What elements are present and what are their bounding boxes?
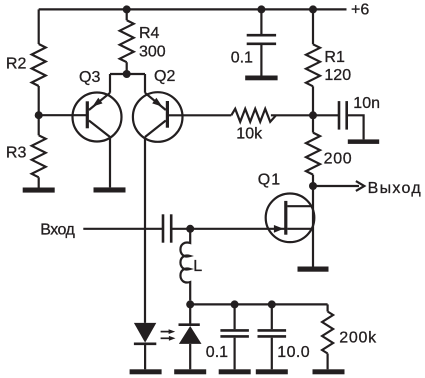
wire R3 to ground: [38, 177, 40, 187]
svg-text:0.1: 0.1: [231, 50, 253, 67]
wire Q2 collector down to LED: [144, 137, 146, 323]
wire Q1 drain/source vertical: [312, 186, 314, 267]
svg-text:200k: 200k: [339, 330, 377, 347]
transistor Q1 JFET: [266, 194, 315, 243]
wire 200k to ground: [327, 354, 329, 370]
wire 10.0 cap to ground: [271, 338, 273, 370]
svg-text:Q2: Q2: [154, 68, 175, 85]
svg-text:+6: +6: [351, 2, 369, 19]
resistor R2: [32, 44, 46, 86]
optocoupler light arrows: [161, 329, 176, 341]
wire R4 bottom lead: [126, 62, 128, 74]
wire 0.1 cap top lead: [260, 9, 262, 34]
node top rail / R4: [123, 5, 131, 13]
svg-text:Выход: Выход: [368, 180, 422, 197]
wire 10n to ground: [347, 115, 364, 139]
wire Q3 collector to ground: [109, 137, 111, 187]
wire 0.1 bottom cap top lead: [234, 304, 236, 329]
ground 10.0: [256, 369, 288, 374]
capacitor 0.1 bottom: [220, 329, 249, 332]
wire R1 top lead: [312, 9, 314, 44]
resistor R4: [120, 20, 134, 62]
wire Q2 emitter vertical: [144, 74, 146, 93]
arrow head output: [356, 181, 364, 191]
node 10k/R1/200/10n: [309, 111, 317, 119]
svg-text:Вход: Вход: [40, 222, 75, 239]
ground 0.1 top cap: [245, 76, 277, 81]
node bottom rail / 10.0: [268, 300, 276, 308]
transistor Q3: [73, 93, 122, 142]
wire Q3 base lead: [39, 114, 88, 116]
wire node to 200: [312, 115, 314, 132]
node top rail / 0.1 cap: [257, 5, 265, 13]
ground photodiode: [174, 369, 206, 374]
resistor 10k: [231, 109, 276, 122]
wire input lead: [83, 228, 163, 230]
svg-text:R3: R3: [6, 144, 27, 161]
wire left branch down from rail to R2: [38, 9, 40, 44]
node R2/R3 divider: [35, 111, 43, 119]
svg-text:L: L: [193, 258, 202, 275]
svg-text:10k: 10k: [236, 125, 263, 142]
wire 10k to node: [271, 114, 313, 116]
wire output arrow: [313, 185, 359, 187]
svg-text:10.0: 10.0: [277, 344, 310, 361]
wire 10.0 cap top lead: [271, 304, 273, 329]
ground 10n: [348, 139, 379, 144]
node output: [309, 182, 317, 190]
capacitor 0.1 top: [247, 34, 276, 37]
svg-text:300: 300: [139, 43, 166, 60]
wire R1 bottom lead: [312, 86, 314, 115]
wire 200 to output node: [312, 175, 314, 186]
ground 0.1 bottom: [219, 369, 251, 374]
capacitor 10.0: [258, 329, 287, 332]
transistor Q2: [133, 92, 183, 142]
ground LED: [130, 369, 162, 374]
wire Q3 emitter vertical: [109, 74, 111, 93]
wire R4 top lead: [126, 9, 128, 20]
node bottom rail / 0.1: [231, 300, 239, 308]
resistor R3: [32, 135, 46, 177]
wire input cap to node: [171, 228, 190, 230]
wire Q2 base to 10k: [167, 114, 231, 116]
LED: [134, 323, 156, 343]
photodiode: [179, 323, 200, 326]
ground Q1: [298, 267, 329, 272]
wire bottom rail: [190, 303, 327, 305]
wire bottom rail to 200k: [327, 304, 329, 311]
resistor 200k: [322, 312, 333, 354]
capacitor 10n: [338, 101, 341, 130]
svg-text:0.1: 0.1: [206, 344, 228, 361]
resistor 200: [306, 133, 320, 175]
wire top rail +6: [39, 8, 347, 10]
node L/photodiode/bottom rail: [186, 300, 194, 308]
wire R2 to R3: [38, 86, 40, 135]
inductor L: [180, 229, 190, 301]
wire 0.1 bottom cap to ground: [234, 338, 236, 370]
svg-text:Q3: Q3: [79, 69, 100, 86]
svg-text:200: 200: [324, 151, 353, 168]
ground Q3: [94, 187, 126, 192]
resistor R1: [306, 44, 320, 86]
ground 200k: [313, 369, 345, 374]
wire emitter rail: [110, 73, 145, 75]
ground R3: [23, 188, 55, 193]
svg-text:R4: R4: [139, 25, 160, 42]
wire node to Q1 gate: [190, 228, 286, 230]
node input/L/gate: [186, 225, 194, 233]
node emitter rail: [123, 70, 131, 78]
wire photodiode to ground: [189, 344, 191, 369]
wire node to 10n cap: [313, 114, 339, 116]
svg-text:Q1: Q1: [258, 171, 281, 188]
capacitor input coupling: [162, 214, 165, 242]
svg-text:120: 120: [324, 67, 351, 84]
svg-text:10n: 10n: [353, 95, 380, 112]
svg-text:R2: R2: [6, 56, 27, 73]
node top rail / R1: [309, 5, 317, 13]
wire photodiode top lead: [189, 304, 191, 324]
svg-text:R1: R1: [324, 49, 345, 66]
wire LED to ground: [144, 344, 146, 370]
wire 0.1 cap bottom lead: [260, 45, 262, 76]
